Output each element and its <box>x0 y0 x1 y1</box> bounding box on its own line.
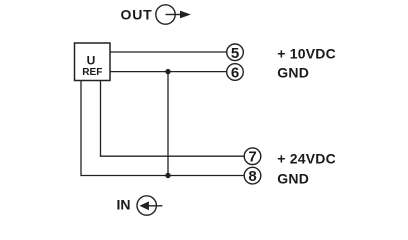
OUT label <box>121 7 153 23</box>
svg-text:6: 6 <box>231 65 239 82</box>
terminal 7 <box>244 148 261 166</box>
wire: U REF to terminal 6 <box>110 71 227 73</box>
svg-text:IN: IN <box>117 197 131 213</box>
OUT signal symbol (circle with right arrow) <box>156 5 191 24</box>
svg-text:5: 5 <box>231 45 239 62</box>
svg-text:REF: REF <box>82 67 102 78</box>
junction dot on wire 8 <box>165 173 170 178</box>
terminal 6 <box>227 64 244 82</box>
wire: U REF to terminal 5 <box>110 51 227 53</box>
svg-text:+ 10VDC: + 10VDC <box>277 46 336 62</box>
IN signal symbol (circle with left arrow) <box>137 196 162 215</box>
wire: U REF bottom to terminal 7 <box>101 81 245 157</box>
svg-text:OUT: OUT <box>121 7 153 23</box>
wire: U REF bottom to terminal 8 <box>81 81 244 176</box>
svg-text:GND: GND <box>277 171 309 187</box>
svg-text:GND: GND <box>277 64 309 80</box>
junction dot on wire 6 <box>165 69 170 74</box>
terminal 5 <box>227 44 244 62</box>
voltage reference U REF box <box>75 43 111 81</box>
svg-text:U: U <box>87 54 96 68</box>
svg-text:7: 7 <box>248 149 256 166</box>
svg-text:8: 8 <box>248 168 256 185</box>
wire: GND vertical link (node between 6 and 8) <box>167 72 169 176</box>
terminal 8 <box>244 167 261 185</box>
IN label <box>117 197 131 213</box>
svg-text:+ 24VDC: + 24VDC <box>277 151 336 167</box>
